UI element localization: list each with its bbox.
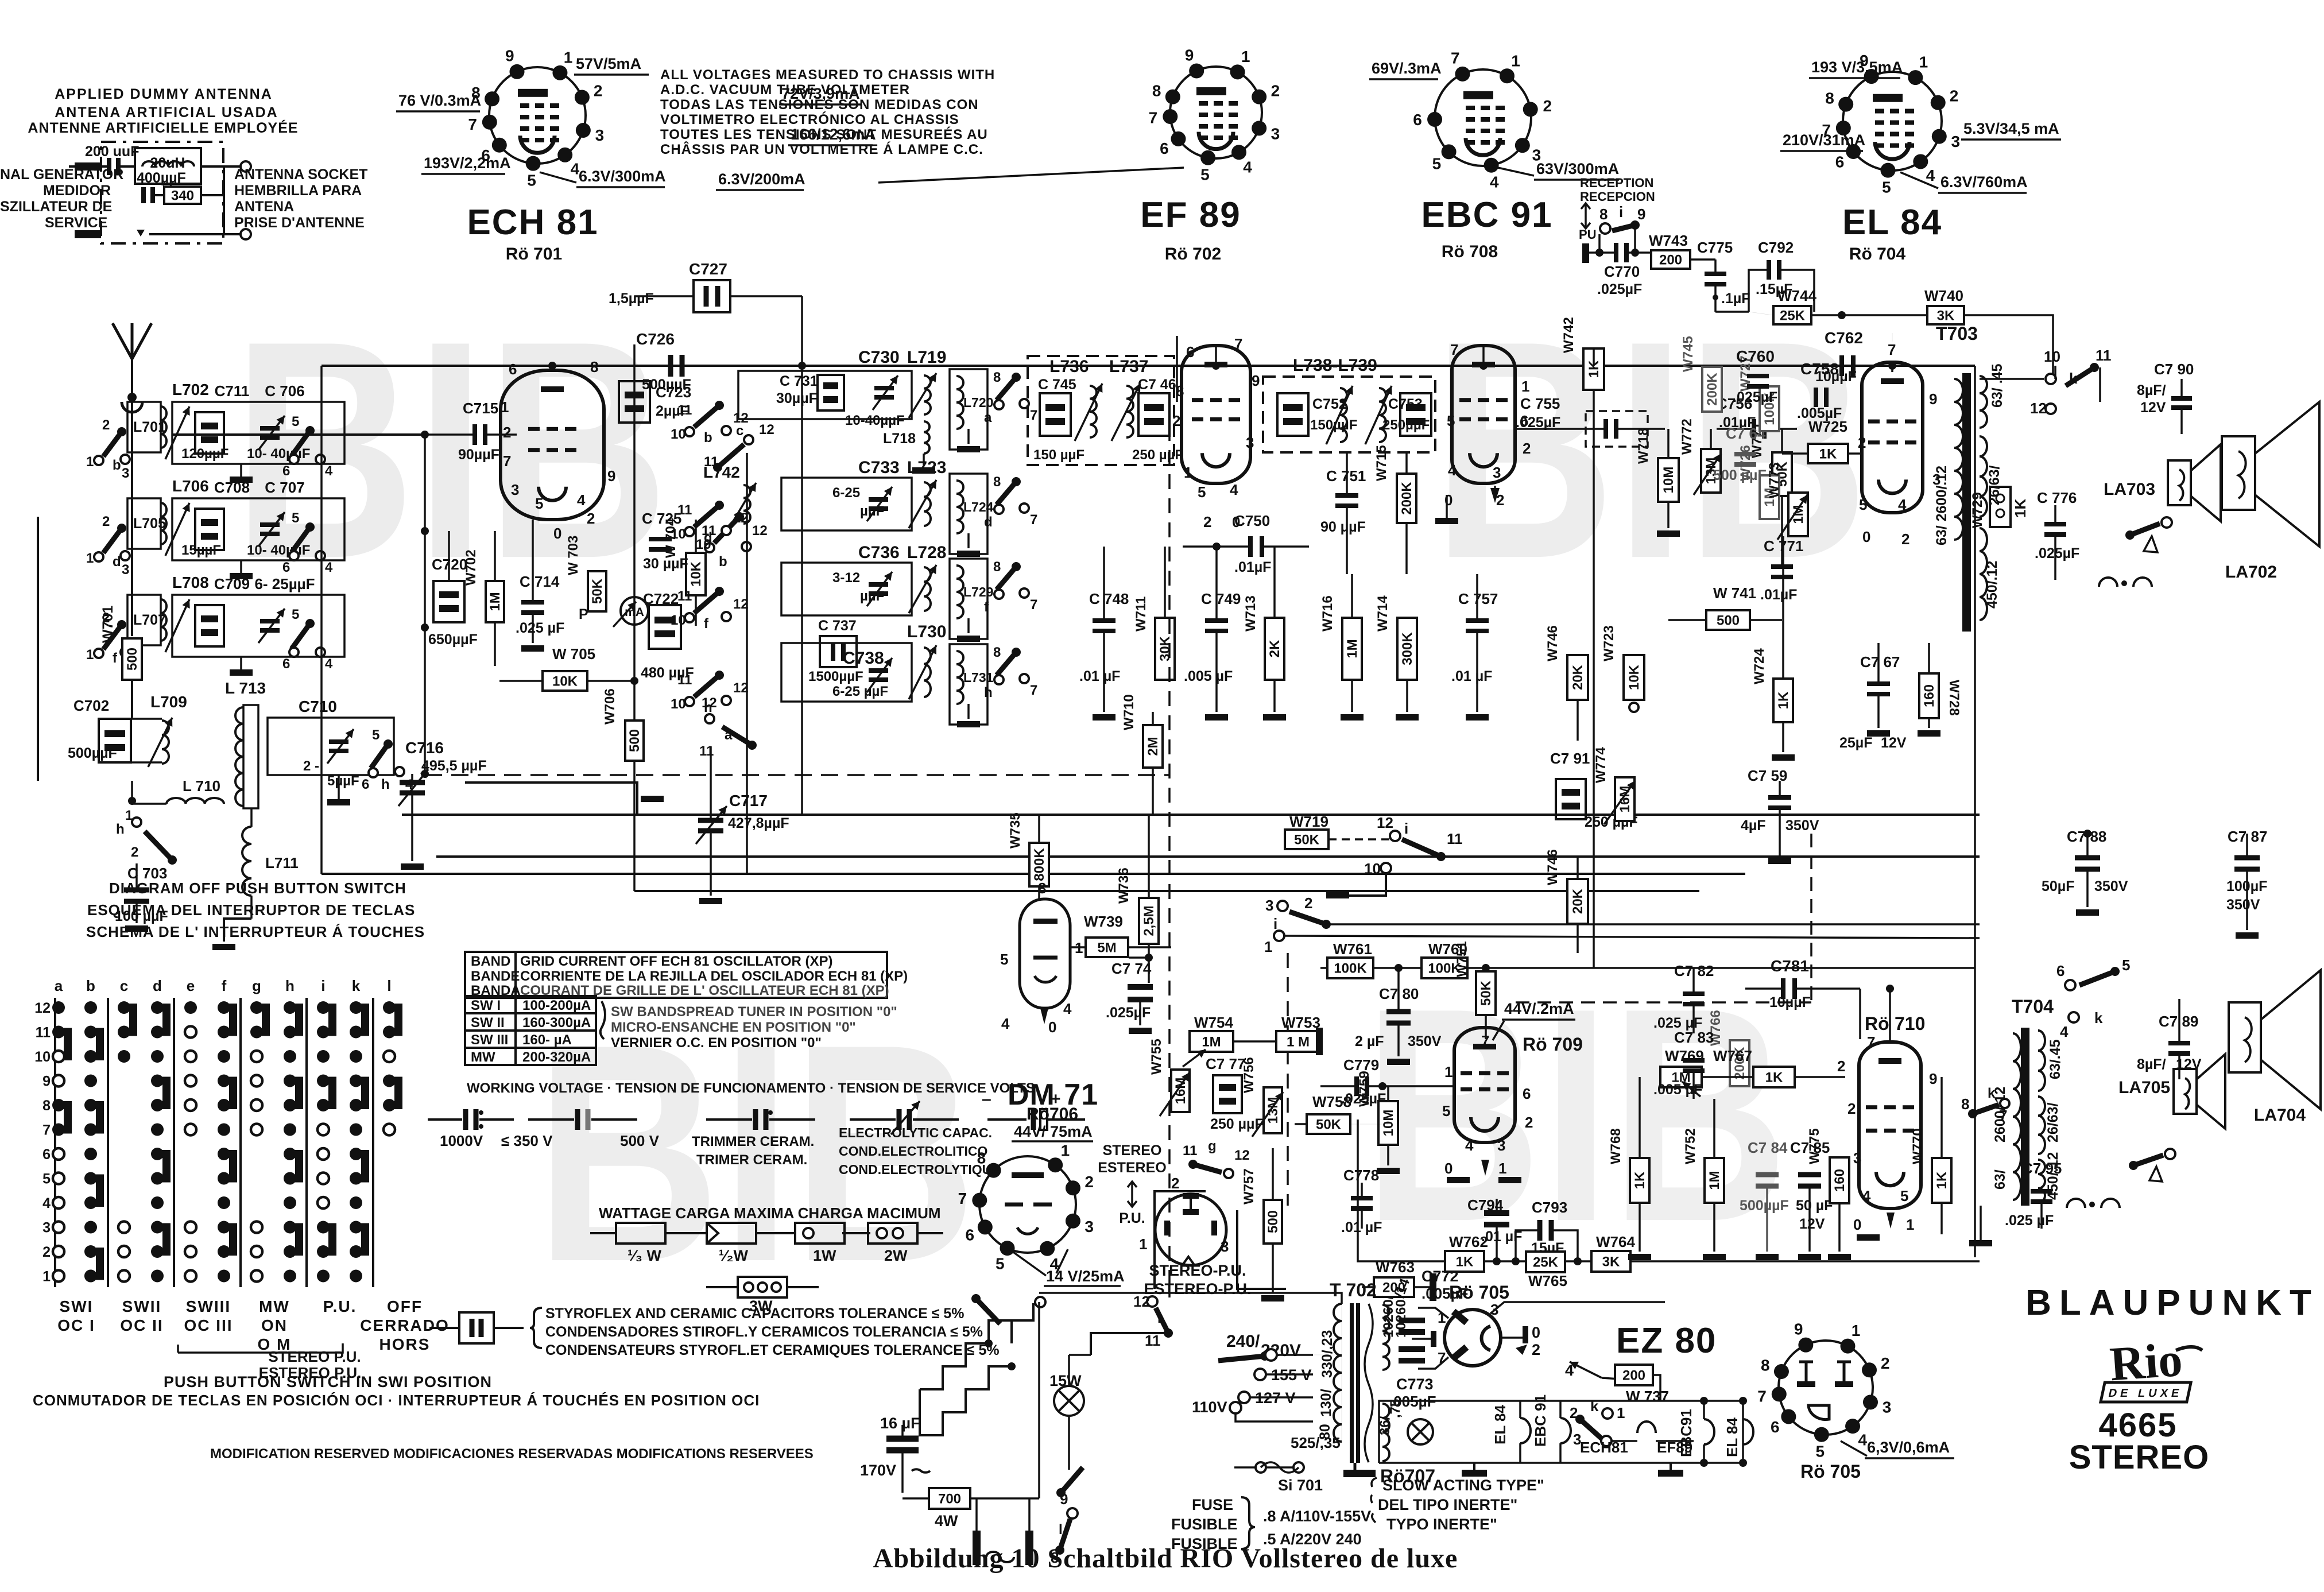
resistor W723 10K <box>1624 655 1644 700</box>
terminal generator bottom <box>75 230 101 238</box>
styroflex tolerance note <box>459 1312 494 1343</box>
svg-text:c: c <box>736 423 743 439</box>
svg-text:2: 2 <box>42 1244 51 1260</box>
ground EBC91 <box>1435 518 1458 524</box>
svg-text:36/: 36/ <box>1377 1416 1393 1435</box>
svg-text:.025µF: .025µF <box>2035 545 2079 561</box>
svg-text:Rö 705: Rö 705 <box>1449 1282 1509 1303</box>
ground T702 <box>1343 1470 1376 1477</box>
svg-text:2 -: 2 - <box>303 758 319 774</box>
brace bandspread note <box>601 1001 605 1039</box>
symbol capacitor 1000V <box>428 1118 462 1121</box>
svg-text:1: 1 <box>86 551 94 566</box>
svg-text:.1µF: .1µF <box>1721 290 1750 307</box>
svg-text:1W: 1W <box>813 1247 836 1264</box>
svg-text:350V: 350V <box>1785 818 1819 834</box>
svg-text:C793: C793 <box>1532 1199 1567 1216</box>
svg-text:EBC91: EBC91 <box>1678 1409 1695 1457</box>
svg-text:W718: W718 <box>1636 428 1651 464</box>
svg-text:L709: L709 <box>150 693 187 711</box>
svg-text:h: h <box>704 700 712 715</box>
svg-text:160: 160 <box>1832 1169 1847 1192</box>
transformer T702 core <box>1350 1303 1354 1463</box>
svg-text:4W: 4W <box>935 1512 958 1529</box>
symbol capacitor 350V <box>528 1118 574 1121</box>
svg-text:L701: L701 <box>133 419 166 435</box>
svg-text:8: 8 <box>1599 206 1608 223</box>
svg-text:ESQUEMA DEL INTERRUPTOR DE TEC: ESQUEMA DEL INTERRUPTOR DE TECLAS <box>87 901 415 919</box>
resistor W742 1K <box>1583 348 1604 390</box>
svg-text:7: 7 <box>1450 341 1458 358</box>
arrow up down <box>1581 203 1590 228</box>
svg-text:1000V: 1000V <box>440 1132 483 1149</box>
svg-text:c: c <box>120 977 128 994</box>
svg-text:C716: C716 <box>405 739 444 757</box>
wire stub y1363 <box>465 783 637 815</box>
svg-text:250 µµF: 250 µµF <box>1132 447 1183 463</box>
svg-text:8: 8 <box>1961 1095 1969 1113</box>
svg-text:6.3V/300mA: 6.3V/300mA <box>579 168 666 185</box>
svg-text:W757: W757 <box>1241 1168 1257 1204</box>
svg-text:W762: W762 <box>1449 1233 1488 1250</box>
band circuit L701/L702 C711 C706 <box>103 432 122 456</box>
svg-text:200K: 200K <box>1399 482 1415 515</box>
svg-text:a: a <box>55 977 63 994</box>
coil L724 and switch d <box>950 474 987 554</box>
voltage selector staircase <box>920 1320 1012 1389</box>
svg-text:10M: 10M <box>1661 467 1676 494</box>
svg-text:VOLTIMETRO ELECTRÓNICO AL CHAS: VOLTIMETRO ELECTRÓNICO AL CHASSIS <box>660 111 959 127</box>
svg-text:C 731: C 731 <box>780 373 818 389</box>
resistor W724 1K <box>1773 679 1793 722</box>
svg-text:SW III: SW III <box>471 1032 508 1048</box>
dashed box L736 L737 <box>1028 356 1174 465</box>
svg-text:C727: C727 <box>689 260 727 278</box>
coil L736 coil <box>1090 386 1097 437</box>
svg-text:1: 1 <box>1919 53 1928 71</box>
svg-text:i: i <box>1273 915 1277 932</box>
svg-text:5µµF: 5µµF <box>327 773 359 789</box>
svg-text:2: 2 <box>1532 1341 1540 1358</box>
mains plug <box>973 1531 981 1565</box>
svg-text:450/.12: 450/.12 <box>1984 561 2000 609</box>
svg-text:350V: 350V <box>2226 897 2260 913</box>
svg-text:4: 4 <box>1001 1015 1010 1032</box>
svg-text:69V/.3mA: 69V/.3mA <box>1372 60 1442 77</box>
dashed box stereo <box>1810 834 1812 1002</box>
svg-text:200 uuF: 200 uuF <box>85 144 139 160</box>
svg-text:SWIII: SWIII <box>186 1297 231 1315</box>
svg-text:+: + <box>1051 1090 1061 1109</box>
svg-text:EBC 91: EBC 91 <box>1532 1395 1549 1447</box>
svg-text:63/: 63/ <box>1992 1169 2008 1190</box>
coil L738 coil <box>1340 388 1347 442</box>
svg-text:50K: 50K <box>590 578 605 604</box>
svg-text:5: 5 <box>527 172 536 189</box>
svg-text:6-25 µµF: 6-25 µµF <box>832 684 888 699</box>
svg-text:W754: W754 <box>1194 1014 1233 1031</box>
svg-text:W726: W726 <box>1738 445 1753 481</box>
svg-text:L724: L724 <box>963 499 994 514</box>
svg-text:3: 3 <box>1493 464 1501 481</box>
svg-text:8µF/: 8µF/ <box>2137 1056 2166 1072</box>
heater bus box <box>1379 1401 1743 1463</box>
svg-text:P: P <box>579 606 588 622</box>
resistor W711 30K <box>1155 618 1175 680</box>
svg-text:W744: W744 <box>1777 287 1816 304</box>
svg-text:L720: L720 <box>963 395 993 410</box>
wire band rows right to column x740 <box>424 435 426 774</box>
switch mains lever3 <box>1061 1467 1083 1493</box>
svg-text:12: 12 <box>34 1000 51 1016</box>
svg-text:Si 701: Si 701 <box>1278 1477 1323 1494</box>
svg-text:8: 8 <box>1761 1357 1770 1374</box>
svg-text:W713: W713 <box>1243 595 1258 632</box>
svg-text:LA703: LA703 <box>2104 480 2155 499</box>
svg-text:7: 7 <box>1030 683 1037 698</box>
svg-text:W 705: W 705 <box>552 645 595 663</box>
svg-text:C760: C760 <box>1736 347 1775 365</box>
svg-text:4: 4 <box>1565 1362 1574 1379</box>
svg-text:5: 5 <box>372 727 379 743</box>
svg-text:COND.ELECTROLITICO: COND.ELECTROLITICO <box>839 1144 987 1159</box>
resistor W737 200 <box>1615 1365 1653 1385</box>
svg-text:200: 200 <box>1622 1368 1645 1383</box>
svg-text:2: 2 <box>1203 513 1211 530</box>
svg-text:6: 6 <box>1160 140 1169 157</box>
svg-text:C7 91: C7 91 <box>1550 750 1590 767</box>
svg-text:4: 4 <box>1465 1137 1474 1154</box>
tuned circuit C710 <box>268 718 394 775</box>
svg-text:0: 0 <box>1532 1324 1540 1341</box>
svg-text:12V: 12V <box>2140 400 2166 416</box>
svg-text:1: 1 <box>1852 1322 1861 1339</box>
svg-text:13M: 13M <box>1265 1097 1281 1124</box>
switch 240/220 <box>1218 1356 1265 1361</box>
svg-text:C702: C702 <box>73 697 109 714</box>
svg-text:VERNIER O.C. EN POSITION "0": VERNIER O.C. EN POSITION "0" <box>611 1035 822 1051</box>
svg-text:h: h <box>116 822 125 837</box>
svg-text:1M: 1M <box>487 592 503 611</box>
svg-text:9: 9 <box>1929 1070 1937 1087</box>
svg-text:BIB: BIB <box>1364 945 1788 1285</box>
svg-text:ESTEREO P.U.: ESTEREO P.U. <box>259 1364 362 1381</box>
svg-text:6- 25µµF: 6- 25µµF <box>254 575 315 592</box>
svg-text:63/.45: 63/.45 <box>2047 1039 2063 1079</box>
svg-text:W770: W770 <box>1910 1128 1926 1164</box>
ground heater right <box>1658 1470 1683 1477</box>
svg-text:g: g <box>1208 1138 1217 1154</box>
svg-text:25K: 25K <box>1780 308 1806 323</box>
svg-text:1: 1 <box>125 808 133 823</box>
svg-text:11: 11 <box>677 672 692 688</box>
capacitor C770 .025uF <box>1582 243 1589 263</box>
svg-text:RECEPCION: RECEPCION <box>1580 189 1655 204</box>
svg-text:C753: C753 <box>1388 396 1423 412</box>
svg-text:2: 2 <box>1171 1175 1179 1192</box>
svg-text:W753: W753 <box>1281 1014 1320 1031</box>
svg-text:L723: L723 <box>907 458 946 477</box>
svg-text:1K: 1K <box>1632 1171 1648 1189</box>
svg-text:ELECTROLYTIC CAPAC.: ELECTROLYTIC CAPAC. <box>839 1125 992 1140</box>
svg-text:W724: W724 <box>1752 648 1767 684</box>
svg-text:L707: L707 <box>133 612 166 628</box>
svg-text:W742: W742 <box>1561 317 1577 353</box>
svg-text:W702: W702 <box>463 549 479 586</box>
svg-text:1: 1 <box>1498 1160 1506 1177</box>
resistor W736 2.5M <box>1139 898 1159 944</box>
svg-text:C738: C738 <box>843 649 884 668</box>
svg-text:f: f <box>984 599 989 615</box>
svg-text:12: 12 <box>733 680 749 696</box>
coil L731 and switch h <box>950 644 987 725</box>
speaker LA702 <box>2222 436 2255 510</box>
svg-text:130/: 130/ <box>1318 1389 1334 1417</box>
svg-text:10: 10 <box>671 427 686 442</box>
svg-text:W 741: W 741 <box>1713 584 1756 602</box>
svg-text:W719: W719 <box>1289 813 1328 830</box>
svg-text:l: l <box>387 977 391 994</box>
svg-text:340: 340 <box>171 188 194 203</box>
svg-text:427,8µµF: 427,8µµF <box>728 815 789 831</box>
svg-text:e: e <box>187 977 195 994</box>
switch mains lever2 <box>976 1299 1000 1324</box>
svg-text:W764: W764 <box>1596 1233 1635 1250</box>
svg-text:11: 11 <box>1183 1143 1197 1159</box>
svg-text:500 V: 500 V <box>620 1132 660 1149</box>
svg-text:3: 3 <box>42 1220 51 1236</box>
svg-text:5: 5 <box>292 414 299 429</box>
svg-text:50 µF: 50 µF <box>1796 1198 1833 1214</box>
resistor W768 1K <box>1630 1158 1649 1203</box>
svg-text:9: 9 <box>607 467 615 485</box>
svg-text:1: 1 <box>501 398 509 416</box>
svg-text:44V/ 75mA: 44V/ 75mA <box>1014 1123 1093 1140</box>
svg-text:16M: 16M <box>1173 1078 1188 1105</box>
svg-text:11: 11 <box>677 502 692 518</box>
svg-text:OFF: OFF <box>387 1297 423 1315</box>
svg-text:CHÂSSIS PAR UN VOLTMETRE Á LAM: CHÂSSIS PAR UN VOLTMETRE Á LAMPE C.C. <box>660 141 983 157</box>
svg-text:RECEPTION: RECEPTION <box>1580 176 1653 190</box>
svg-text:30 µµF: 30 µµF <box>643 556 688 572</box>
svg-text:2: 2 <box>1901 530 1909 548</box>
svg-text:ANTENA: ANTENA <box>234 199 294 215</box>
meter mA <box>621 597 648 625</box>
svg-text:Abbildung 10 Schaltbild RIO: Abbildung 10 Schaltbild RIO Vollstereo d… <box>873 1543 1458 1574</box>
svg-text:7: 7 <box>1030 597 1037 613</box>
svg-text:C733: C733 <box>858 458 900 477</box>
svg-text:250 µµF: 250 µµF <box>1210 1116 1264 1132</box>
svg-text:C7 46: C7 46 <box>1138 377 1176 393</box>
wire long band 3 <box>322 873 1745 875</box>
svg-text:6: 6 <box>966 1226 975 1244</box>
svg-text:6.3V/760mA: 6.3V/760mA <box>1940 173 2028 191</box>
svg-text:OC II: OC II <box>120 1316 163 1334</box>
svg-text:C 725: C 725 <box>642 510 681 527</box>
svg-text:5: 5 <box>1198 483 1206 501</box>
svg-text:350V: 350V <box>2094 878 2128 894</box>
svg-text:OC III: OC III <box>184 1316 233 1334</box>
svg-text:C7 83: C7 83 <box>1674 1029 1714 1046</box>
svg-text:Rö 701: Rö 701 <box>506 245 562 264</box>
tube socket Ro705 bottom <box>1779 1341 1873 1435</box>
svg-text:W774: W774 <box>1593 747 1609 783</box>
resistor W765 25K <box>1526 1252 1565 1272</box>
wire stereo bus <box>1320 967 1975 969</box>
ground dummy antenna <box>137 230 145 237</box>
svg-text:L719: L719 <box>907 348 946 367</box>
svg-text:W772: W772 <box>1679 419 1695 455</box>
terminal 10 and switch k <box>1980 378 2044 380</box>
svg-text:PRISE D'ANTENNE: PRISE D'ANTENNE <box>234 215 365 231</box>
svg-text:EZ 80: EZ 80 <box>1616 1321 1717 1361</box>
svg-text:i: i <box>321 977 325 994</box>
svg-text:C750: C750 <box>1234 512 1270 529</box>
wire vertical x2050 <box>1176 336 1178 402</box>
svg-text:9: 9 <box>1060 1490 1068 1508</box>
fuse Si701 <box>1256 1462 1266 1473</box>
svg-text:12V: 12V <box>1881 735 1907 751</box>
svg-text:5: 5 <box>42 1171 51 1187</box>
symbol 1W <box>769 1232 795 1234</box>
svg-text:2,5M: 2,5M <box>1141 905 1157 936</box>
svg-text:3: 3 <box>1221 1238 1229 1255</box>
svg-text:4: 4 <box>1862 1187 1871 1204</box>
svg-text:L711: L711 <box>265 854 299 871</box>
svg-text:C708: C708 <box>214 479 250 496</box>
svg-text:L730: L730 <box>907 622 946 641</box>
tube DM71 magic eye envelope <box>1020 899 1070 1008</box>
svg-text:2: 2 <box>102 514 110 529</box>
svg-text:W740: W740 <box>1924 287 1963 304</box>
svg-text:ECH 81: ECH 81 <box>467 203 598 242</box>
svg-text:5: 5 <box>1447 412 1455 429</box>
svg-text:500: 500 <box>627 729 642 752</box>
svg-text:WORKING VOLTAGE · TENSION DE F: WORKING VOLTAGE · TENSION DE FUNCIONAMEN… <box>467 1080 1035 1096</box>
svg-text:W765: W765 <box>1528 1272 1567 1289</box>
svg-text:C 707: C 707 <box>265 479 304 496</box>
resistor 700 4W <box>929 1488 970 1509</box>
svg-text:.025µF: .025µF <box>1106 1005 1151 1021</box>
svg-text:C758: C758 <box>1800 360 1839 378</box>
svg-text:8: 8 <box>1176 382 1184 400</box>
svg-text:W 703: W 703 <box>565 536 581 575</box>
svg-text:6: 6 <box>362 777 369 792</box>
svg-text:63V/300mA: 63V/300mA <box>1536 160 1619 177</box>
svg-text:C 737: C 737 <box>818 618 857 634</box>
svg-text:STEREO-P.U.: STEREO-P.U. <box>1149 1262 1246 1279</box>
resistor W772 13M <box>1701 449 1721 493</box>
svg-text:210V/31mA: 210V/31mA <box>1783 131 1865 149</box>
svg-text:W755: W755 <box>1149 1039 1164 1075</box>
svg-text:9: 9 <box>1637 206 1645 223</box>
svg-text:500µµF: 500µµF <box>1740 1198 1789 1214</box>
svg-text:20uH: 20uH <box>150 155 185 171</box>
svg-text:W736: W736 <box>1116 867 1132 904</box>
svg-text:20K: 20K <box>1570 664 1586 690</box>
svg-text:TRIMMER CERAM.: TRIMMER CERAM. <box>692 1134 814 1149</box>
svg-text:TRIMER CERAM.: TRIMER CERAM. <box>696 1152 807 1168</box>
svg-text:3: 3 <box>1265 897 1273 914</box>
wire vertical x3440 <box>1974 366 1976 1257</box>
svg-text:2M: 2M <box>1145 737 1161 756</box>
svg-text:6.3V/200mA: 6.3V/200mA <box>718 171 805 188</box>
ground heater <box>1462 1470 1487 1477</box>
svg-text:W 737: W 737 <box>1626 1388 1669 1405</box>
svg-text:200K: 200K <box>1705 373 1720 406</box>
svg-text:SW BANDSPREAD TUNER IN POSITIO: SW BANDSPREAD TUNER IN POSITION "0" <box>611 1004 897 1020</box>
svg-text:EL 84: EL 84 <box>1492 1405 1509 1444</box>
svg-text:4: 4 <box>577 491 586 509</box>
capacitor C722 480uuF <box>649 605 681 649</box>
svg-text:2: 2 <box>131 845 138 860</box>
svg-text:3K: 3K <box>1602 1254 1620 1269</box>
svg-text:4: 4 <box>42 1195 51 1211</box>
wire L709 to L710 <box>131 781 133 801</box>
svg-text:6: 6 <box>282 463 290 479</box>
svg-text:1K: 1K <box>2012 499 2029 518</box>
svg-text:2: 2 <box>1543 97 1552 115</box>
resistor W726 1M <box>1760 475 1779 519</box>
stereo pu bracket <box>178 1343 343 1353</box>
svg-text:8: 8 <box>1152 82 1161 99</box>
svg-text:C730: C730 <box>858 348 900 367</box>
svg-text:5: 5 <box>1859 496 1867 513</box>
svg-text:1: 1 <box>1521 378 1529 395</box>
svg-text:6: 6 <box>1771 1418 1780 1436</box>
svg-text:1M: 1M <box>1345 639 1360 658</box>
resistor W718 10M <box>1658 458 1679 502</box>
resistor W766 200K <box>1730 1040 1749 1086</box>
svg-text:4: 4 <box>325 560 333 575</box>
lamp dial <box>1408 1419 1433 1444</box>
svg-text:b: b <box>719 554 727 570</box>
svg-text:.8 A/110V-155V: .8 A/110V-155V <box>1263 1508 1371 1525</box>
svg-text:170V: 170V <box>860 1462 896 1479</box>
resistor W704 10K <box>686 553 706 595</box>
svg-text:8: 8 <box>993 559 1001 575</box>
svg-text:6: 6 <box>1186 343 1194 361</box>
svg-text:7: 7 <box>1149 109 1158 127</box>
tube ECH81 envelope <box>501 370 604 520</box>
svg-text:1: 1 <box>1184 464 1192 481</box>
svg-text:12: 12 <box>1133 1293 1150 1310</box>
svg-text:6: 6 <box>1523 1085 1531 1102</box>
symbol electrolytic <box>987 1118 1027 1121</box>
svg-text:12V: 12V <box>1799 1216 1825 1232</box>
svg-text:160- µA: 160- µA <box>522 1032 572 1048</box>
svg-text:W761: W761 <box>1333 940 1372 958</box>
svg-text:TYPO INERTE": TYPO INERTE" <box>1386 1516 1497 1533</box>
svg-text:W768: W768 <box>1608 1128 1624 1164</box>
svg-text:2: 2 <box>102 417 110 433</box>
svg-text:10- 40µµF: 10- 40µµF <box>247 543 310 558</box>
svg-text:90 µµF: 90 µµF <box>1320 519 1366 535</box>
svg-text:166/12,6mA: 166/12,6mA <box>791 126 876 143</box>
svg-text:30K: 30K <box>1157 636 1173 661</box>
svg-text:8: 8 <box>1038 880 1046 897</box>
svg-text:2: 2 <box>1525 1114 1533 1131</box>
tube EF89 envelope <box>1182 346 1250 483</box>
resistor W727 100K <box>1760 386 1779 431</box>
resistor W756 13M <box>1264 1087 1282 1133</box>
svg-text:C7 95: C7 95 <box>2022 1160 2062 1177</box>
svg-text:193V/2,2mA: 193V/2,2mA <box>424 154 511 172</box>
svg-text:5: 5 <box>292 510 299 526</box>
svg-text:6: 6 <box>1835 153 1845 171</box>
svg-text:1: 1 <box>1617 1404 1625 1421</box>
resistor W735 800K <box>1029 843 1049 886</box>
